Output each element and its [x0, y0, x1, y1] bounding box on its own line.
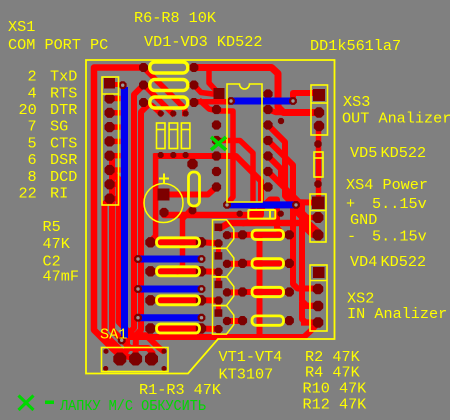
svg-text:2: 2 [28, 68, 37, 86]
svg-text:47mF: 47mF [43, 268, 79, 286]
svg-text:VD1-VD3 KD522: VD1-VD3 KD522 [144, 33, 262, 51]
svg-text:VD5: VD5 [350, 144, 377, 162]
svg-text:-: - [347, 228, 356, 246]
svg-text:VD4: VD4 [350, 253, 377, 271]
svg-text:RI: RI [50, 185, 68, 203]
svg-text:KD522: KD522 [381, 253, 427, 271]
svg-text:DSR: DSR [50, 151, 77, 169]
svg-text:5..15v: 5..15v [372, 228, 427, 246]
svg-text:R6-R8 10K: R6-R8 10K [134, 9, 217, 27]
svg-text:OUT Analizer: OUT Analizer [342, 110, 450, 128]
svg-text:5: 5 [28, 134, 37, 152]
svg-text:R1-R3 47K: R1-R3 47K [139, 381, 222, 399]
svg-text:20: 20 [19, 101, 37, 119]
svg-text:IN Analizer: IN Analizer [347, 305, 447, 323]
svg-text:DD1k561la7: DD1k561la7 [310, 37, 401, 55]
svg-text:VT1-VT4: VT1-VT4 [219, 348, 283, 366]
svg-text:GND: GND [350, 211, 377, 229]
svg-text:R12 47K: R12 47K [303, 396, 368, 414]
svg-text:5..15v: 5..15v [372, 195, 427, 213]
svg-text:RTS: RTS [50, 84, 77, 102]
svg-text:6: 6 [28, 151, 37, 169]
svg-text:COM PORT PC: COM PORT PC [8, 36, 108, 54]
svg-text:8: 8 [28, 168, 37, 186]
svg-text:22: 22 [19, 185, 37, 203]
svg-text:4: 4 [28, 84, 37, 102]
svg-text:DCD: DCD [50, 168, 77, 186]
svg-text:DTR: DTR [50, 101, 77, 119]
svg-text:47K: 47K [43, 235, 71, 253]
svg-text:TxD: TxD [50, 68, 77, 86]
svg-text:KT3107: KT3107 [219, 366, 274, 384]
svg-text:7: 7 [28, 118, 37, 136]
svg-text:XS4 Power: XS4 Power [346, 176, 428, 194]
svg-text:ЛАПКУ М/С ОБКУСИТЬ: ЛАПКУ М/С ОБКУСИТЬ [59, 399, 206, 415]
svg-text:XS1: XS1 [8, 18, 35, 36]
svg-text:SA1: SA1 [100, 326, 127, 344]
svg-text:KD522: KD522 [381, 144, 427, 162]
svg-text:SG: SG [50, 118, 68, 136]
svg-text:XS3: XS3 [343, 93, 370, 111]
svg-text:CTS: CTS [50, 134, 77, 152]
svg-text:R5: R5 [43, 218, 61, 236]
